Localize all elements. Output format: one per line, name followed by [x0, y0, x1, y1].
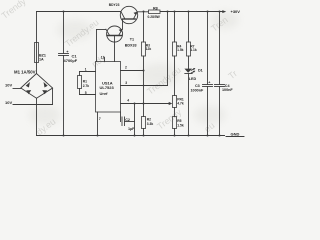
- svg-text:R5: R5: [177, 119, 181, 123]
- svg-text:1.1k: 1.1k: [190, 48, 197, 52]
- svg-text:BZ1: BZ1: [39, 53, 46, 57]
- svg-text:BDX33: BDX33: [125, 44, 137, 48]
- svg-text:R2: R2: [147, 118, 151, 122]
- svg-text:+: +: [208, 80, 210, 84]
- svg-text:BDY23: BDY23: [109, 3, 120, 7]
- svg-text:UL7523: UL7523: [100, 85, 115, 90]
- svg-text:10V: 10V: [5, 100, 12, 105]
- svg-text:T1: T1: [130, 37, 134, 41]
- svg-text:C3: C3: [195, 84, 200, 88]
- svg-text:12: 12: [101, 55, 105, 59]
- svg-text:Uref: Uref: [100, 91, 109, 96]
- svg-text:4.7k: 4.7k: [177, 102, 184, 106]
- svg-text:5: 5: [85, 91, 87, 95]
- svg-text:LED: LED: [189, 77, 197, 81]
- svg-text:2: 2: [125, 66, 127, 70]
- svg-text:100nF: 100nF: [222, 88, 233, 92]
- svg-text:3.3k: 3.3k: [147, 122, 154, 126]
- svg-text:M1 1A/50V: M1 1A/50V: [14, 70, 36, 75]
- svg-text:1000nF: 1000nF: [191, 89, 204, 93]
- svg-text:4700µF: 4700µF: [64, 58, 78, 63]
- svg-text:+30V: +30V: [231, 9, 241, 14]
- svg-text:2.7k: 2.7k: [83, 84, 90, 88]
- svg-text:1A: 1A: [39, 58, 44, 62]
- svg-text:0.28/5W: 0.28/5W: [148, 15, 161, 19]
- svg-text:4: 4: [127, 99, 129, 103]
- svg-text:D1: D1: [198, 68, 203, 72]
- svg-text:R1: R1: [83, 79, 87, 83]
- svg-text:1: 1: [85, 68, 87, 72]
- svg-text:1µF: 1µF: [128, 127, 135, 131]
- svg-text:C2: C2: [125, 118, 130, 122]
- svg-text:12k: 12k: [146, 47, 152, 51]
- svg-text:R8: R8: [153, 6, 158, 10]
- svg-text:7: 7: [99, 117, 101, 121]
- svg-text:1.5k: 1.5k: [177, 48, 184, 52]
- svg-text:1.5k: 1.5k: [177, 123, 184, 127]
- svg-text:10V: 10V: [5, 83, 12, 88]
- svg-text:3: 3: [125, 81, 127, 85]
- svg-text:GND: GND: [231, 132, 240, 137]
